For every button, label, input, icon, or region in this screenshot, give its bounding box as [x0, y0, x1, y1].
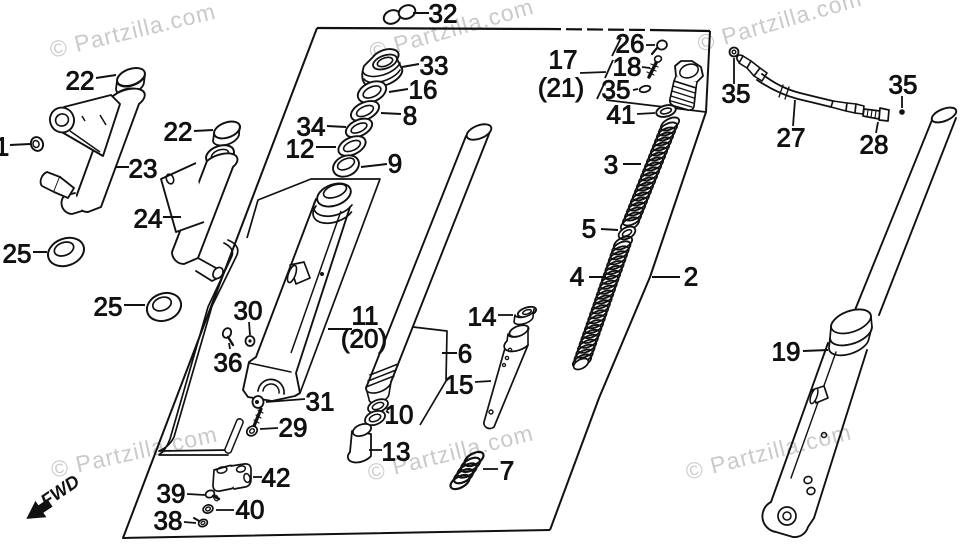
part 11 axle clamp arch: [258, 379, 284, 394]
label 23: [115, 166, 129, 168]
part 38 screw: [198, 518, 209, 528]
part 5 spring joint: [616, 224, 637, 242]
part 30 nut: [246, 336, 255, 346]
part 19 axle boss: [762, 502, 814, 537]
part 22 seat upper-left: [109, 85, 143, 111]
svg-text:(21): (21): [538, 72, 584, 102]
part 35 o-ring small: [639, 85, 651, 94]
svg-text:30: 30: [234, 295, 263, 325]
part 8 seal spacer: [348, 97, 382, 125]
svg-text:15: 15: [445, 369, 474, 399]
FWD arrow: [36, 470, 83, 511]
part 9 slide bushing: [330, 151, 363, 181]
part 19 clip: [812, 386, 828, 403]
label 32: [413, 12, 429, 14]
label 25 upper: [33, 251, 47, 253]
label 35 left: [733, 58, 735, 84]
label 5: [601, 229, 618, 230]
part 2 fork tube right: [855, 118, 956, 315]
svg-text:3: 3: [604, 149, 618, 179]
part 35 sealing washer left: [730, 48, 739, 57]
part 16 stopper ring: [354, 77, 389, 107]
part 39 bolt: [205, 489, 216, 499]
svg-text:22: 22: [164, 116, 193, 146]
svg-text:35: 35: [889, 69, 918, 99]
part 7 rebound spring: [448, 472, 472, 492]
svg-text:4: 4: [570, 261, 584, 291]
svg-text:19: 19: [772, 336, 801, 366]
svg-text:29: 29: [279, 412, 308, 442]
part 41 o-ring: [655, 103, 677, 119]
svg-text:40: 40: [236, 494, 265, 524]
label 1: [10, 144, 30, 145]
svg-text:42: 42: [262, 462, 291, 492]
part 35 sealing washer right: [901, 96, 903, 108]
svg-text:6: 6: [458, 338, 472, 368]
label 22 left: [96, 75, 116, 78]
label 35 inset: [633, 89, 638, 90]
label 27: [793, 100, 795, 126]
part 19 front fork assembly: [828, 304, 875, 339]
label 30: [249, 322, 250, 335]
svg-text:27: 27: [777, 122, 806, 152]
label 33: [402, 64, 419, 67]
label 4: [589, 276, 606, 278]
svg-text:35: 35: [722, 78, 751, 108]
part 22 collar lower-right: [212, 118, 243, 141]
label 11 (20): [328, 328, 352, 330]
label 28: [876, 122, 878, 133]
part 18 air valve: [649, 61, 657, 77]
part 22 collar upper-left: [115, 65, 148, 90]
part 25 dust seal lower: [143, 288, 185, 325]
label 16: [389, 89, 408, 92]
part 24 stud bolt: [196, 258, 222, 281]
label 26: [646, 44, 655, 46]
svg-text:36: 36: [214, 347, 243, 377]
svg-text:41: 41: [607, 99, 636, 129]
svg-text:22: 22: [66, 65, 95, 95]
svg-text:8: 8: [403, 100, 417, 130]
part 1 bolt: [29, 135, 45, 152]
label 9: [361, 164, 387, 167]
part 15 fork piston: [508, 323, 530, 339]
stay strip: [159, 240, 238, 451]
svg-text:31: 31: [306, 386, 335, 416]
svg-text:7: 7: [500, 455, 514, 485]
part 40 washer: [202, 504, 214, 515]
part 24 right fork bracket: [172, 153, 238, 264]
part 28 oil bolt: [863, 109, 880, 119]
svg-text:(20): (20): [341, 323, 387, 353]
label 36: [229, 343, 230, 349]
label 13: [369, 449, 382, 451]
part 42 hose clamp: [213, 466, 236, 492]
svg-text:13: 13: [382, 436, 411, 466]
part 11 (20) bottom case: [243, 199, 350, 401]
part 4 fork spring lower: [612, 234, 635, 253]
part 19 details: [822, 433, 827, 438]
label 25 lower: [124, 304, 145, 306]
leader bracket for part 6: [413, 327, 447, 425]
svg-text:10: 10: [385, 399, 414, 429]
label 39: [187, 494, 205, 495]
svg-text:9: 9: [388, 148, 402, 178]
part 10 piston ring set: [366, 397, 390, 416]
part 14 spring seat: [517, 305, 538, 319]
svg-text:17: 17: [549, 44, 578, 74]
svg-text:1: 1: [0, 131, 9, 161]
svg-text:12: 12: [286, 133, 315, 163]
label 8: [381, 113, 401, 114]
svg-text:25: 25: [3, 238, 32, 268]
label 10: [386, 411, 389, 413]
part 25 dust seal upper: [44, 233, 88, 271]
label 18: [642, 67, 650, 68]
inset box around air-valve parts: [606, 100, 706, 112]
label 40: [216, 509, 234, 511]
part 23 left fork bracket: [75, 89, 145, 212]
svg-text:32: 32: [429, 0, 458, 28]
label 12: [316, 146, 336, 148]
label 34: [327, 126, 346, 127]
label 29: [260, 428, 278, 429]
part 17 (21) fork bolt: [675, 61, 703, 82]
part 34 back-up ring: [343, 115, 375, 141]
svg-text:2: 2: [684, 261, 698, 291]
part 26 screw: [656, 39, 668, 51]
part 11 hose guide lug: [290, 262, 310, 284]
svg-text:5: 5: [582, 213, 596, 243]
label 19: [803, 350, 828, 351]
label 22 right: [194, 130, 213, 131]
label 7: [483, 468, 498, 470]
label 15: [475, 381, 491, 382]
fork tube front: [366, 129, 491, 388]
main outline parallelogram: [317, 28, 545, 29]
part 24 right fork bracket top seat: [203, 142, 236, 169]
part 32 cable guide: [382, 8, 403, 26]
part 3 fork spring upper: [659, 115, 682, 134]
svg-text:14: 14: [468, 301, 497, 331]
part 36 screw: [221, 327, 232, 339]
label 42: [253, 476, 262, 478]
svg-text:24: 24: [134, 203, 163, 233]
label 38: [184, 522, 196, 523]
pin strip near 29: [225, 419, 243, 453]
svg-text:23: 23: [129, 153, 158, 183]
label 6: [442, 352, 457, 354]
svg-text:28: 28: [860, 129, 889, 159]
part 13 oil lock piece: [348, 431, 371, 462]
part 29 joint bolt: [254, 409, 261, 426]
label 41: [637, 113, 655, 114]
part 31 socket bolt: [253, 396, 264, 408]
leader bracket for part 11: [247, 179, 380, 393]
label 24: [163, 216, 181, 218]
svg-text:38: 38: [154, 505, 183, 535]
part 12 oil seal: [335, 132, 368, 160]
part 33 fork cover: [362, 49, 402, 87]
svg-text:39: 39: [157, 478, 186, 508]
label 14: [498, 314, 513, 316]
part 23 stud: [41, 172, 60, 192]
label 2: [652, 276, 680, 278]
label 3: [623, 163, 641, 165]
label 31: [266, 399, 305, 402]
part 27 brake hose: [735, 53, 746, 64]
svg-text:25: 25: [94, 291, 123, 321]
fork tube bottom rings: [366, 364, 398, 387]
